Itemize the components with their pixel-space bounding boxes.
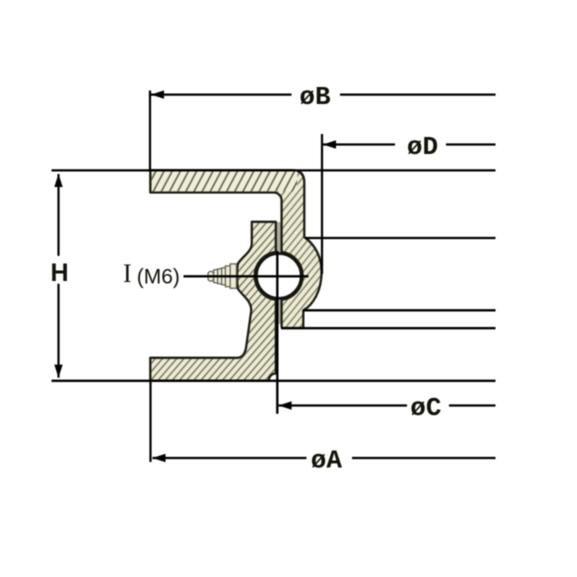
split gap between rings (gray strip above ball) [277, 222, 281, 253]
dimension line øB with left arrow [151, 82, 496, 112]
H dimension line with up/down arrows [50, 174, 68, 378]
horizontal reference line lower-right [281, 327, 496, 329]
grease fitting (zerk) [208, 264, 236, 288]
ball vertical centerline / øC extension [276, 251, 278, 414]
svg-text:øA: øA [311, 446, 343, 476]
horizontal reference line upper-right [305, 237, 496, 239]
bottom surface line [52, 380, 496, 382]
dimension line øA with left arrow [153, 446, 496, 476]
ball [256, 254, 301, 299]
extension line for øA at left end of bottom bar [149, 381, 151, 462]
svg-text:øD: øD [407, 132, 438, 162]
split gap between rings (gray strip below ball) [277, 299, 281, 324]
dimension line øD with left arrow [323, 132, 496, 162]
svg-text:øB: øB [299, 82, 331, 112]
inner ring (bottom bar + middle leg) cross-section [150, 222, 275, 381]
extension line for øB at left end of top bar [149, 91, 151, 171]
horizontal reference line mid-right [303, 309, 496, 311]
svg-text:H: H [50, 259, 68, 287]
top surface line [52, 169, 496, 171]
label I (M6) [123, 259, 180, 289]
ball horizontal centerline through grease fitting [184, 275, 309, 277]
outer ring (top bar + right leg) cross-section [150, 170, 321, 328]
svg-text:I: I [123, 259, 132, 288]
svg-text:øC: øC [410, 393, 441, 423]
dimension line øC with left arrow [279, 393, 496, 423]
extension line for øD [321, 134, 323, 274]
svg-text:(M6): (M6) [137, 266, 180, 289]
